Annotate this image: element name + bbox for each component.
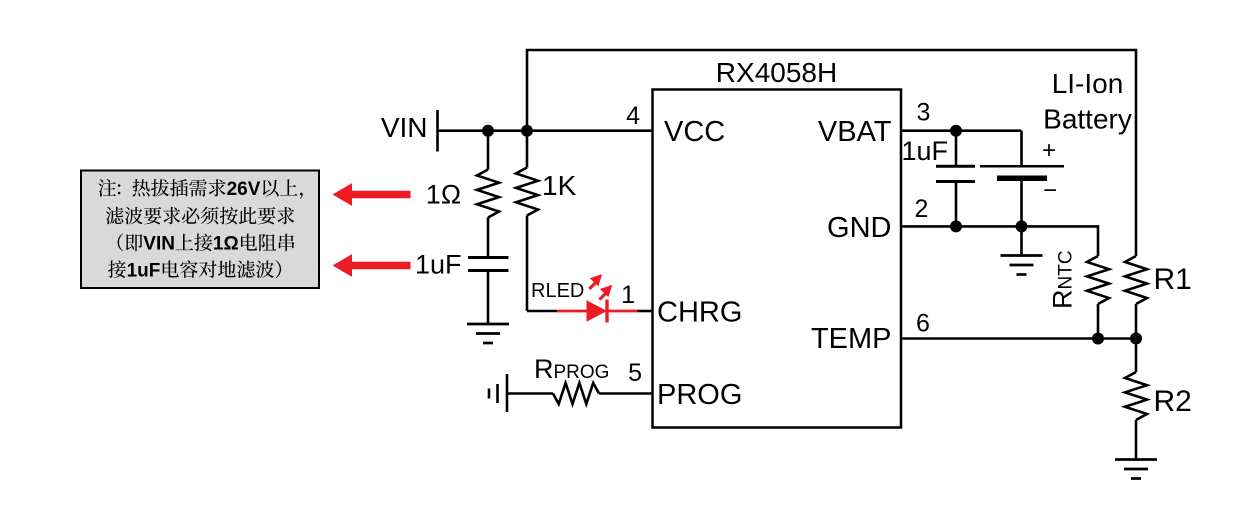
resistor R2 [1125, 372, 1147, 420]
resistor 1-ohm [477, 170, 499, 218]
wire R2 to ground [1135, 420, 1138, 460]
svg-text:−: − [1043, 177, 1057, 204]
junction VIN/1K/top rail [521, 125, 533, 137]
resistor R1 [1125, 256, 1147, 304]
svg-text:CHRG: CHRG [657, 297, 742, 329]
svg-text:2: 2 [915, 195, 929, 223]
label RNTC [1048, 250, 1078, 309]
LED emission arrow 1 [590, 274, 602, 286]
svg-text:VCC: VCC [664, 116, 725, 148]
wire GND pin to RNTC [901, 226, 1098, 256]
svg-text:VIN: VIN [143, 234, 175, 255]
svg-text:1K: 1K [542, 170, 577, 201]
svg-text:+: + [1042, 137, 1056, 164]
wire gnd to R PROG [507, 392, 553, 395]
junction TEMP/RNTC [1092, 333, 1104, 345]
svg-text:RX4058H: RX4058H [716, 57, 837, 88]
battery BT1 [980, 166, 1064, 178]
svg-text:VBAT: VBAT [818, 116, 892, 148]
wire R1 to TEMP net [1135, 304, 1138, 339]
wire 1K to LED (black) [527, 310, 557, 313]
junction VBAT/C 1uF [950, 125, 962, 137]
IC U1 RX4058H body [653, 90, 902, 428]
svg-text:5: 5 [628, 359, 642, 387]
wire LED to CHRG pin [638, 310, 653, 313]
capacitor 1uF (input) [468, 258, 509, 271]
VIN terminal bar [436, 110, 439, 152]
wire C 1uF to GND net [955, 183, 958, 226]
junction VIN/1-ohm [482, 125, 494, 137]
resistor 1K [516, 168, 538, 216]
junction TEMP/R1/R2 [1130, 333, 1142, 345]
svg-text:1uF: 1uF [127, 260, 161, 281]
svg-text:4: 4 [626, 102, 640, 130]
wire to system ground [1020, 226, 1023, 255]
wire RNTC to TEMP net [1097, 304, 1100, 339]
junction GND/battery [1016, 220, 1028, 232]
wire 1K down [526, 216, 529, 312]
wire TEMP pin [901, 337, 1136, 340]
wire C 1uF to ground [487, 272, 490, 324]
resistor RNTC [1087, 256, 1109, 304]
LED emission arrow 2 [600, 285, 612, 297]
svg-text:6: 6 [916, 310, 930, 338]
wire RPROG to PROG pin [599, 392, 653, 395]
svg-text:1Ω: 1Ω [213, 234, 239, 255]
svg-text:R2: R2 [1154, 385, 1192, 418]
svg-text:TEMP: TEMP [811, 323, 892, 355]
wire LED anode (red) [557, 310, 587, 313]
red arrow 2 (to 1uF) [333, 254, 411, 277]
wire TEMP net to R2 [1135, 339, 1138, 373]
svg-text:1uF: 1uF [415, 250, 462, 280]
resistor RPROG [553, 383, 599, 404]
wire top rail [527, 50, 1136, 256]
wire to battery + [1020, 131, 1023, 166]
svg-text:1Ω: 1Ω [426, 180, 461, 210]
wire LED cathode (red) [607, 310, 638, 313]
ground (input filter) [467, 324, 509, 343]
svg-text:RNTC: RNTC [1048, 250, 1078, 309]
capacitor 1uF (output) [936, 166, 975, 181]
wire to C 1uF (output) [955, 131, 958, 166]
svg-text:1: 1 [621, 281, 635, 309]
svg-text:LI-Ion: LI-Ion [1052, 68, 1124, 99]
note box [81, 171, 319, 289]
svg-text:1uF: 1uF [901, 136, 948, 166]
svg-text:GND: GND [827, 212, 891, 244]
wire battery - to GND net [1020, 181, 1023, 226]
wire VBAT [901, 129, 1022, 132]
svg-text:RLED: RLED [531, 280, 584, 302]
svg-text:VIN: VIN [381, 112, 428, 143]
svg-text:3: 3 [917, 99, 931, 127]
junction GND/C 1uF [950, 220, 962, 232]
ground (R2) [1115, 460, 1157, 479]
svg-text:RPROG: RPROG [534, 354, 609, 384]
LED RLED diode [587, 300, 608, 321]
svg-text:R1: R1 [1154, 263, 1192, 296]
svg-text:PROG: PROG [657, 379, 742, 411]
wire R 1-ohm to C 1uF [487, 218, 490, 258]
svg-text:26V: 26V [227, 179, 261, 200]
wire to R 1-ohm [487, 131, 490, 170]
svg-text:Battery: Battery [1043, 104, 1132, 135]
red arrow 1 (to 1-ohm) [333, 183, 411, 206]
ground terminal (RPROG, sideways) [489, 374, 507, 412]
wire to R 1K [526, 131, 529, 168]
wire VIN to VCC pin [438, 129, 653, 132]
note text [98, 179, 302, 200]
ground (battery) [1001, 256, 1043, 275]
